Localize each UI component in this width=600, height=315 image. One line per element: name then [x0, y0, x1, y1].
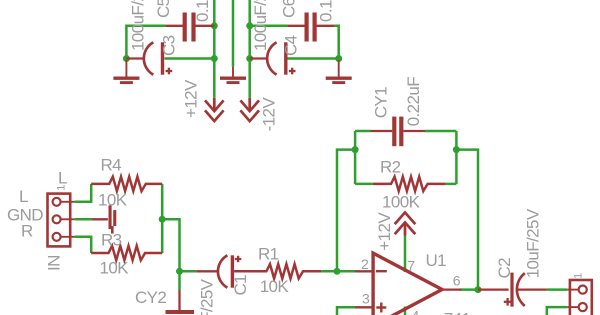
capacitor CY1 — [371, 117, 426, 147]
capacitor C6 — [287, 13, 334, 42]
svg-text:0.1uF: 0.1uF — [316, 0, 335, 22]
wire feedback to output column — [456, 150, 478, 290]
svg-text:0.1uF: 0.1uF — [193, 0, 212, 22]
svg-text:4: 4 — [412, 308, 420, 315]
svg-text:C3: C3 — [159, 35, 178, 56]
node junction C3 right — [211, 55, 218, 62]
svg-text:0.22uF: 0.22uF — [404, 77, 423, 127]
op-amp U1 — [355, 253, 461, 315]
supply arrow -12V top — [240, 98, 259, 121]
svg-text:100uF/25V: 100uF/25V — [129, 0, 148, 51]
wire R1 to op-amp pin2 junction — [321, 270, 355, 273]
ground left — [113, 60, 139, 83]
svg-text:100uF/25V: 100uF/25V — [251, 0, 270, 51]
svg-text:L: L — [58, 168, 67, 187]
wire op-amp pin7 supply — [404, 236, 407, 273]
capacitor CY2 lower plate / ground bar — [166, 290, 195, 312]
ground middle — [220, 67, 246, 83]
svg-text:10uF/25V: 10uF/25V — [523, 208, 542, 278]
node junction feedback left — [352, 146, 359, 153]
wire output connector pin2 down — [547, 307, 567, 315]
svg-text:R3: R3 — [101, 230, 122, 249]
supply arrow +12V op-amp — [395, 212, 416, 235]
wire op-amp pin4 down — [404, 307, 407, 315]
wire mix node to C1 column — [162, 219, 179, 290]
node junction feedback right — [453, 146, 460, 153]
svg-text:1: 1 — [573, 273, 585, 279]
svg-text:CY2: CY2 — [135, 288, 166, 307]
svg-text:R: R — [21, 221, 33, 240]
svg-text:R4: R4 — [101, 156, 122, 175]
svg-text:C6: C6 — [279, 0, 298, 18]
svg-text:C1: C1 — [231, 275, 250, 296]
node junction output — [475, 286, 482, 293]
wire C2 to output connector — [547, 288, 567, 291]
node junction V- top — [246, 22, 253, 29]
node junction C1 input — [176, 268, 183, 275]
svg-text:7: 7 — [407, 257, 415, 273]
wire V- to C6 — [250, 25, 288, 28]
wire R4/R3 right column — [161, 184, 164, 253]
svg-text:6: 6 — [453, 272, 461, 288]
wire CY1 right — [425, 130, 456, 133]
wire C6 right corner down — [334, 26, 338, 59]
wire pin2 junction up to feedback — [337, 150, 355, 272]
svg-text:C5: C5 — [154, 0, 173, 18]
svg-text:10K: 10K — [100, 258, 130, 277]
wire R2 right — [446, 183, 457, 186]
resistor R1 — [234, 264, 321, 278]
wire CY1 left — [355, 130, 370, 133]
wire middle ground rail — [232, 0, 235, 67]
svg-text:CY1: CY1 — [372, 87, 391, 118]
svg-text:R1: R1 — [258, 244, 279, 263]
node junction C4 right — [335, 55, 342, 62]
wire input L pin up to R4 — [75, 184, 92, 202]
svg-text:100K: 100K — [382, 192, 421, 211]
node junction C4 left — [246, 55, 253, 62]
connector IN — [48, 194, 75, 247]
capacitor C1 — [196, 255, 241, 287]
svg-text:741: 741 — [444, 309, 471, 315]
wire input R pin down to R3 — [75, 237, 92, 253]
capacitor C2 — [478, 273, 547, 307]
wire R2 left — [355, 183, 373, 186]
svg-text:-12V: -12V — [260, 97, 279, 132]
node junction pin2 — [334, 268, 341, 275]
resistor R3 — [91, 246, 162, 260]
wire op-amp output to C2 — [460, 288, 478, 291]
svg-text:L: L — [19, 187, 28, 206]
capacitor C4 — [250, 42, 296, 74]
svg-text:U1: U1 — [426, 251, 447, 270]
wire V+ vertical rail — [213, 0, 216, 98]
capacitor CY2 plates at GND pin — [92, 205, 117, 233]
wire top-left block corner (V+ rail to C5/C3) — [126, 26, 165, 59]
node junction C3 left — [123, 55, 130, 62]
wire node to C1 — [180, 270, 197, 273]
svg-text:10K: 10K — [260, 277, 290, 296]
wire op-amp pin3 from below — [337, 307, 355, 315]
supply arrow +12V top — [205, 98, 224, 121]
svg-text:10K: 10K — [98, 191, 128, 210]
svg-text:C4: C4 — [282, 35, 301, 56]
capacitor C3 — [126, 42, 172, 74]
svg-text:10uF/25V: 10uF/25V — [197, 278, 216, 315]
connector OUT — [567, 280, 592, 315]
resistor R2 — [373, 177, 446, 191]
node junction R4/R3 — [159, 216, 166, 223]
ground right — [326, 60, 352, 83]
svg-text:IN: IN — [44, 255, 63, 271]
wire V- vertical rail — [248, 0, 251, 98]
resistor R4 — [91, 177, 162, 191]
wire C4 right to corner — [287, 57, 338, 60]
svg-text:+12V: +12V — [375, 212, 394, 251]
svg-text:1: 1 — [56, 185, 68, 191]
node junction V+ top — [211, 22, 218, 29]
wire C3 right to V+ column — [165, 57, 215, 60]
wire input GND pin — [75, 218, 92, 221]
svg-text:C2: C2 — [495, 258, 514, 279]
capacitor C5 — [166, 13, 215, 42]
svg-text:3: 3 — [362, 290, 370, 306]
wire feedback right vertical — [455, 131, 458, 184]
svg-text:+12V: +12V — [182, 79, 201, 118]
svg-text:2: 2 — [361, 256, 369, 272]
svg-text:R2: R2 — [380, 157, 401, 176]
wire feedback left vertical — [354, 131, 357, 184]
